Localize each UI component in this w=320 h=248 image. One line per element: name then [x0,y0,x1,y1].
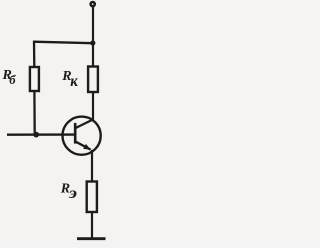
transistor VT (circle) [63,117,101,155]
wire: Re bottom lead [91,212,93,239]
node: top junction dot [90,40,95,45]
wire: top horizontal [33,42,92,44]
wire: base horizontal [7,133,75,135]
svg-text:б: б [9,72,16,87]
wire: emitter down to Re [91,150,93,181]
resistor Rэ [87,182,97,213]
ground [77,237,106,240]
resistor Rб [30,67,39,91]
wire: Rk top lead from junction [92,43,94,66]
wire: Rk bottom lead to collector [92,92,94,120]
wire: terminal to top junction [92,7,94,43]
node: base junction dot [33,132,39,138]
transistor base bar [74,123,77,144]
wire: Rb top lead [33,41,36,67]
wire: Rb bottom lead [33,91,36,135]
transistor collector lead (diagonal) [75,119,93,128]
svg-text:э: э [68,185,78,202]
emitter arrowhead [83,144,91,150]
svg-text:к: к [70,73,78,90]
resistor Rк [88,67,98,93]
terminal (supply input) [91,2,95,6]
transistor emitter lead (diagonal with arrow) [75,141,91,149]
